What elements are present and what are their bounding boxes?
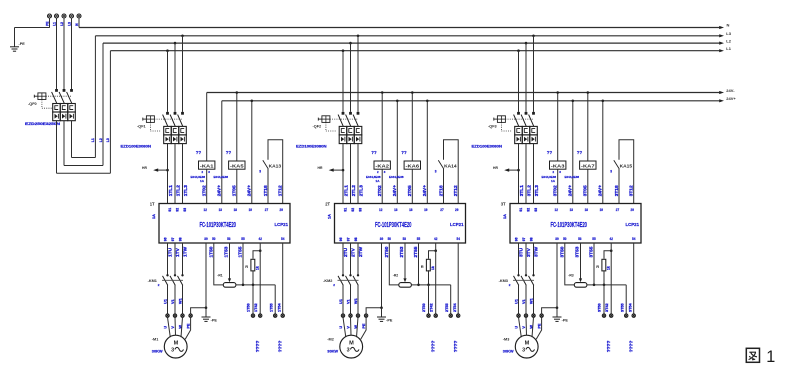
svg-text:3: 3 [259, 170, 261, 174]
terminal V motor 2 [349, 314, 352, 317]
node 24V+ tap 1 section 2 [396, 100, 399, 103]
svg-text:19: 19 [249, 208, 252, 212]
svg-text:55: 55 [417, 237, 420, 241]
wire QF0 out 2 [64, 43, 103, 165]
svg-text:3T02: 3T02 [553, 185, 559, 196]
svg-text:2TU: 2TU [343, 247, 349, 257]
svg-text:1T53: 1T53 [223, 246, 229, 257]
svg-text:2TL2: 2TL2 [351, 185, 357, 197]
wire V section 3 [525, 243, 527, 275]
svg-text:93: 93 [358, 208, 362, 212]
wire N bus [79, 27, 719, 29]
svg-text:2T02: 2T02 [377, 185, 383, 196]
terminal X0:L3 [70, 14, 74, 18]
svg-text:R: R [421, 264, 424, 269]
terminal 3T42 [610, 314, 613, 317]
wire 24V+ feed 2 section 2 [426, 101, 428, 204]
svg-text:18: 18 [234, 208, 237, 212]
ground PE section 2 [377, 317, 386, 321]
breaker QF3 pole 1 [514, 112, 520, 126]
svg-text:R: R [596, 264, 599, 269]
wire coil KA5 top [236, 93, 238, 162]
svg-text:96: 96 [515, 237, 519, 241]
svg-text:42: 42 [259, 237, 262, 241]
node RP3 top junction [610, 249, 613, 252]
wire U section 3 [518, 243, 520, 275]
VFD drive U3 FC-101 [510, 204, 641, 244]
svg-text:53: 53 [403, 237, 406, 241]
wire 2 QF2 to drive [350, 144, 352, 204]
labels 1TU 1TV 1TW [167, 246, 188, 257]
svg-text:3T42: 3T42 [605, 303, 609, 312]
svg-text:3T12: 3T12 [629, 185, 635, 196]
svg-text:2T: 2T [325, 202, 330, 207]
labels analog terminals section 2 [422, 302, 457, 312]
svg-text:W1: W1 [354, 298, 358, 304]
wire RP1 to terminal [252, 285, 254, 314]
contact KA15 [614, 160, 620, 203]
wire L3 drop section 2 [357, 36, 359, 112]
svg-text:E044,3E38: E044,3E38 [389, 175, 404, 179]
svg-text:LCP21: LCP21 [275, 222, 289, 227]
svg-text:97: 97 [347, 237, 351, 241]
contactor KM1 pole 2 [170, 274, 176, 314]
wire pin42 section 3 [610, 243, 612, 314]
wire RP3 bottom [603, 270, 605, 285]
svg-text:12: 12 [379, 208, 382, 212]
svg-text:-PE: -PE [19, 42, 26, 46]
relay coil KA2 [374, 161, 390, 169]
breaker QF0 mechanism [34, 93, 46, 100]
arrow 24V+ [719, 99, 724, 102]
resistor RP2 [426, 259, 430, 271]
potentiometer R3 [574, 283, 587, 288]
resistor RP3 [602, 259, 606, 271]
wire pin54 section 1 [282, 243, 284, 314]
svg-text:3TL1: 3TL1 [519, 185, 525, 197]
svg-text:-QF0: -QF0 [28, 102, 37, 106]
node 24V+ tap 2 section 3 [602, 100, 605, 103]
breaker QF2 trip unit 3 [354, 126, 362, 143]
svg-text:54: 54 [457, 237, 460, 241]
wires terminals to motor 1 [168, 317, 191, 339]
svg-text:-KM3: -KM3 [499, 279, 508, 283]
arrow L1 [719, 49, 724, 52]
wire coil KA2 bottom [381, 169, 383, 203]
svg-text:1T: 1T [150, 202, 155, 207]
labels below motor terminals [515, 323, 542, 329]
VFD drive U2 FC-101 [335, 204, 466, 244]
motor M3 [515, 335, 538, 358]
svg-text:R: R [245, 264, 248, 269]
wire PE stub down section 2 [381, 308, 383, 317]
svg-text:29: 29 [631, 208, 634, 212]
wire net out right section 1 [274, 285, 276, 314]
wire 24V+ feed 1 section 2 [396, 101, 398, 204]
wire pin50 section 3 [565, 243, 575, 285]
svg-text:HR: HR [142, 166, 147, 170]
svg-text:96: 96 [339, 237, 343, 241]
relay coil KA6 [404, 161, 420, 169]
svg-text:EZD100E3080N: EZD100E3080N [296, 144, 327, 148]
contactor KM1 pole 1 [163, 274, 169, 314]
contactor KM3 linkage [513, 279, 534, 281]
node HR junction section 1 [166, 169, 169, 172]
wire PE run to ground [15, 27, 50, 29]
svg-text:L3: L3 [106, 138, 110, 142]
contactor KM2 pole 3 [353, 274, 359, 314]
svg-text:PE: PE [187, 323, 191, 329]
node tap L3 section 1 [181, 35, 184, 38]
svg-text:2TW: 2TW [358, 246, 364, 257]
label coil KA2 data [366, 170, 386, 183]
labels below motor terminals [339, 323, 366, 329]
svg-text:LCP21: LCP21 [626, 222, 640, 227]
wire 24V+ feed 1 section 3 [572, 101, 574, 204]
wire coil KA7 top [587, 93, 589, 162]
labels U1 V1 W1 [515, 298, 534, 304]
wire bus 24V+ [222, 100, 720, 102]
svg-text:N: N [727, 23, 730, 28]
svg-text:L3: L3 [726, 31, 731, 36]
svg-text:-QF2: -QF2 [313, 124, 322, 128]
svg-text:3T55: 3T55 [620, 303, 624, 312]
svg-text:-KA6: -KA6 [406, 164, 420, 169]
wire pin39 to PE section 1 [205, 243, 207, 308]
terminal 2T50 [427, 314, 430, 317]
node 24V+ tap 2 section 1 [251, 100, 254, 103]
labels control wires section 3 [553, 185, 635, 197]
svg-text:3T18: 3T18 [614, 185, 620, 196]
svg-text:M: M [525, 340, 530, 346]
pin labels top section 2 [343, 208, 458, 212]
wire W section 2 [357, 243, 359, 275]
svg-text:1TV: 1TV [175, 247, 181, 257]
arrow N [719, 26, 724, 29]
breaker QF2 mechanism [318, 116, 330, 123]
terminal U motor 1 [166, 314, 169, 317]
svg-text:55: 55 [241, 237, 244, 241]
wire coil KA6 bottom [411, 169, 413, 203]
riser labels L1 L2 L3 [91, 138, 110, 142]
wire L1 drop section 1 [167, 51, 169, 112]
terminal X0:L2 [62, 14, 66, 18]
wire coil KA7 bottom [587, 169, 589, 203]
svg-text:1T55: 1T55 [238, 246, 244, 257]
breaker QF2 trip link [326, 122, 337, 131]
breaker QF2 trip unit 1 [339, 126, 347, 143]
node 24V- tap KA7 [587, 91, 590, 94]
breaker QF3 linkage [505, 118, 533, 120]
wire RP1 top [253, 251, 260, 259]
labels control wires section 1 [202, 185, 284, 197]
svg-text:E044,3E38: E044,3E38 [565, 175, 580, 179]
potentiometer R1 [223, 283, 236, 288]
svg-text:-PE: -PE [386, 318, 393, 322]
wire pin54 section 2 [457, 243, 459, 314]
svg-text:M: M [349, 340, 354, 346]
breaker QF3 trip link [501, 122, 512, 131]
wire 3 QF2 to drive [357, 144, 359, 204]
svg-text:39: 39 [555, 237, 558, 241]
wire 2 QF3 to drive [525, 144, 527, 204]
svg-text:-KM1: -KM1 [148, 279, 157, 283]
svg-text:2TV: 2TV [350, 247, 356, 257]
svg-text:EZD250E3250N: EZD250E3250N [25, 122, 61, 126]
svg-text:24V-: 24V- [726, 88, 735, 93]
svg-text:U: U [515, 326, 519, 329]
wire 1 QF3 to drive [518, 144, 520, 204]
wire pin55 section 3 [593, 243, 595, 285]
svg-text:97: 97 [522, 237, 526, 241]
svg-text:1TW: 1TW [182, 246, 188, 257]
svg-text:-R1: -R1 [217, 273, 223, 277]
svg-text:U1: U1 [164, 299, 168, 304]
svg-text:3: 3 [610, 170, 612, 174]
svg-text:54: 54 [281, 237, 284, 241]
wire PE motor section 2 [366, 308, 381, 314]
svg-text:????: ???? [255, 341, 261, 353]
breaker QF0 pole 1 [52, 89, 58, 103]
svg-text:????: ???? [278, 341, 284, 353]
svg-text:97: 97 [171, 237, 175, 241]
node RP2 top junction [434, 249, 437, 252]
wire W section 3 [533, 243, 535, 275]
breaker QF1 pole 2 [170, 112, 176, 126]
svg-text:E044,3E38: E044,3E38 [214, 175, 229, 179]
terminal U motor 3 [517, 314, 520, 317]
svg-text:91: 91 [168, 208, 172, 212]
svg-text:30KW: 30KW [152, 348, 163, 353]
svg-text:1A: 1A [328, 214, 332, 219]
breaker QF3 pole 3 [529, 112, 535, 126]
svg-text:L2: L2 [99, 138, 103, 142]
label coil KA3 data [542, 170, 562, 183]
node 24V- tap KA3 [556, 91, 559, 94]
svg-text:2T18: 2T18 [438, 185, 444, 196]
contactor KM1 pole 3 [178, 274, 184, 314]
wire RP2 top [429, 251, 436, 259]
wire PE drop from terminal [49, 18, 51, 28]
node RP3 bottom junction [603, 284, 606, 287]
svg-text:53: 53 [578, 237, 581, 241]
svg-text:HR: HR [318, 166, 323, 170]
node pin55 junction [242, 284, 245, 287]
VFD drive U1 FC-101 [159, 204, 290, 244]
svg-text:1A: 1A [503, 214, 507, 219]
svg-text:2T50: 2T50 [422, 303, 426, 312]
arrow 24V- [719, 91, 724, 94]
breaker QF1 mechanism [143, 116, 155, 123]
svg-text:2T42: 2T42 [430, 303, 434, 312]
svg-text:2T12: 2T12 [453, 185, 459, 196]
svg-text:FC-101P30KT4E20: FC-101P30KT4E20 [200, 220, 237, 229]
svg-text:39: 39 [204, 237, 207, 241]
labels ?? below terminals section 2 [431, 341, 459, 353]
svg-text:1: 1 [766, 348, 775, 366]
motor M1 [164, 335, 187, 358]
svg-text:-M1: -M1 [152, 337, 159, 341]
arrow L3 [719, 34, 724, 37]
labels 3TU 3TV 3TW [518, 246, 539, 257]
svg-text:EZD100E3080N: EZD100E3080N [121, 144, 152, 148]
svg-text:U1: U1 [515, 299, 519, 304]
node 24V- tap KA6 [411, 91, 414, 94]
terminal 3T55 [625, 314, 628, 317]
pin labels top section 3 [519, 208, 634, 212]
svg-text:2TL1: 2TL1 [343, 185, 349, 197]
contactor KM2 pole 1 [338, 274, 344, 314]
terminal W motor 1 [181, 314, 184, 317]
wire coil KA6 top [411, 93, 413, 162]
wire coil KA1 bottom [206, 169, 208, 203]
wire U section 1 [167, 243, 169, 275]
svg-text:LCP21: LCP21 [450, 222, 464, 227]
wire coil KA3 bottom [557, 169, 559, 203]
labels lower control wires section 1 [208, 246, 243, 257]
labels ?? below terminals section 1 [255, 341, 283, 353]
terminal 2T54 [457, 314, 460, 317]
svg-text:98: 98 [354, 237, 358, 241]
svg-text:50: 50 [212, 237, 215, 241]
wire pot out section 3 [587, 284, 626, 286]
node tap L2 section 1 [174, 42, 177, 45]
motor M2 [340, 335, 363, 358]
ground PE [10, 47, 19, 51]
svg-text:1TU: 1TU [167, 247, 173, 257]
svg-text:V1: V1 [347, 299, 351, 304]
svg-text:54: 54 [632, 237, 635, 241]
svg-text:2T05: 2T05 [407, 185, 413, 196]
svg-text:3TL2: 3TL2 [526, 185, 532, 197]
wires terminals to motor 3 [519, 317, 542, 339]
node RP1 top junction [259, 249, 262, 252]
svg-text:50: 50 [563, 237, 566, 241]
wire L1 drop section 2 [342, 51, 344, 112]
svg-text:39: 39 [380, 237, 383, 241]
svg-text:????: ???? [606, 341, 612, 353]
svg-text:29: 29 [280, 208, 283, 212]
svg-text:??: ?? [226, 150, 232, 155]
svg-text:3TW: 3TW [533, 246, 539, 257]
labels lower control wires section 3 [559, 246, 594, 257]
svg-text:FC-101P30KT4E20: FC-101P30KT4E20 [375, 220, 412, 229]
terminal X0:PE [48, 14, 52, 18]
labels 2TU 2TV 2TW [343, 246, 364, 257]
svg-text:3: 3 [171, 348, 174, 354]
wire RP3 to terminal [603, 285, 605, 314]
terminal 2T42 [434, 314, 437, 317]
pin labels bottom section 2 [339, 237, 460, 241]
terminal labels [46, 22, 79, 26]
wire L3 drop section 1 [182, 36, 184, 112]
svg-text:PE: PE [538, 323, 542, 329]
svg-text:42: 42 [610, 237, 613, 241]
svg-text:U: U [164, 326, 168, 329]
svg-text:1T55: 1T55 [269, 303, 273, 312]
svg-text:3T53: 3T53 [574, 246, 580, 257]
label 2TL1 2TL2 2TL3 [343, 185, 364, 197]
wire pin53 wiper section 2 [403, 243, 406, 282]
node HR junction section 3 [517, 169, 520, 172]
wire coil KA5 bottom [236, 169, 238, 203]
wire PE stub down section 1 [205, 308, 207, 317]
resistor RP1 [251, 259, 255, 271]
svg-text:3T55: 3T55 [589, 246, 595, 257]
wire pin39 to PE section 2 [381, 243, 383, 308]
contactor KM2 linkage [338, 279, 359, 281]
svg-text:3T: 3T [501, 202, 506, 207]
svg-text:24V+: 24V+ [392, 185, 398, 197]
terminal 2T55 [449, 314, 452, 317]
breaker QF2 trip unit 2 [347, 126, 355, 143]
wire bus L2 [103, 42, 719, 44]
svg-text:-KA5: -KA5 [230, 164, 244, 169]
node PE junction section 1 [205, 306, 208, 309]
svg-text:-M2: -M2 [327, 337, 334, 341]
pin labels bottom section 3 [515, 237, 636, 241]
node tap L2 section 3 [525, 42, 528, 45]
wire coil KA1 top [206, 93, 208, 162]
svg-text:-M3: -M3 [503, 337, 510, 341]
breaker QF1 trip link [150, 122, 161, 131]
wire pin54 section 3 [633, 243, 635, 314]
wire pot out section 1 [236, 284, 275, 286]
node tap L1 section 3 [517, 49, 520, 52]
svg-text:M: M [174, 340, 179, 346]
svg-text:98: 98 [530, 237, 534, 241]
wire L3 drop section 3 [533, 36, 535, 112]
svg-text:??: ?? [577, 150, 583, 155]
relay coil KA5 [229, 161, 245, 169]
svg-text:30KW: 30KW [327, 348, 338, 353]
svg-text:U: U [339, 326, 343, 329]
svg-text:PE: PE [362, 323, 366, 329]
breaker QF0 trip unit 2 [60, 104, 68, 121]
terminal V motor 1 [173, 314, 176, 317]
svg-text:-KM2: -KM2 [323, 279, 332, 283]
wire pot out section 2 [411, 284, 450, 286]
wire contact KA14 loop [444, 140, 459, 204]
wire pin53 wiper section 1 [228, 243, 231, 282]
wire 1 QF1 to drive [167, 144, 169, 204]
svg-text:1TL2: 1TL2 [175, 185, 181, 197]
contactor KM3 pole 2 [521, 274, 527, 314]
terminal 1T42 [259, 314, 262, 317]
contactor KM3 pole 3 [529, 274, 535, 314]
svg-text:27: 27 [440, 208, 443, 212]
labels lower control wires section 2 [384, 246, 419, 257]
svg-text:2T55: 2T55 [445, 303, 449, 312]
labels analog terminals section 3 [597, 302, 632, 312]
svg-text:29: 29 [455, 208, 458, 212]
wire contact KA13 loop [268, 140, 283, 204]
wire RP2 bottom [428, 270, 430, 285]
svg-text:92: 92 [175, 208, 179, 212]
svg-text:KA13: KA13 [269, 164, 282, 169]
svg-text:FC-101P30KT4E20: FC-101P30KT4E20 [551, 220, 588, 229]
labels below motor terminals [164, 323, 191, 329]
svg-text:19: 19 [424, 208, 427, 212]
svg-text:13: 13 [570, 208, 573, 212]
svg-text:92: 92 [351, 208, 355, 212]
svg-text:3: 3 [522, 348, 525, 354]
wire pin42 section 2 [435, 243, 437, 314]
svg-text:3: 3 [435, 170, 437, 174]
wire bus L3 [95, 35, 719, 37]
wire U section 2 [342, 243, 344, 275]
labels control wires section 2 [377, 185, 459, 197]
